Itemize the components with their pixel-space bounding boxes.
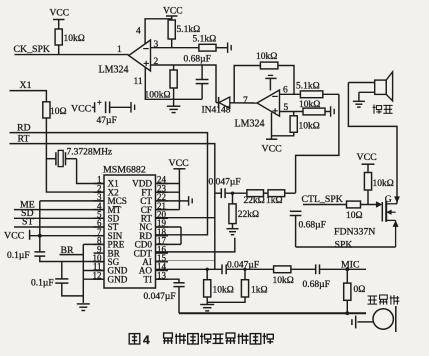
wire SG line (pin10) (40, 261, 104, 263)
svg-text:CTL_SPK: CTL_SPK (302, 194, 343, 205)
resistor R11 22k&#937; (247, 190, 264, 197)
svg-text:VCC: VCC (163, 7, 183, 17)
terminator at microphone (355, 316, 357, 329)
wire AO net (pin14) (156, 268, 222, 270)
svg-text:AI: AI (142, 257, 152, 267)
capacitor C2 0.68&#181;F (series) (290, 210, 302, 212)
svg-text:15: 15 (157, 253, 167, 263)
wire X1 rail down to pin2 (46, 118, 104, 192)
resistor R4 100k&#937; (173, 65, 175, 70)
transistor Q1 FDN337N (MOSFET) (381, 202, 383, 222)
wire VDD/FT/CT/CF to VCC rail (156, 183, 180, 185)
ground below R4 (173, 99, 175, 106)
IC U2 MSM6882 (104, 175, 156, 288)
svg-text:1kΩ: 1kΩ (251, 286, 268, 296)
junction dot divider (231, 192, 234, 195)
pin 24 (VDD) (156, 183, 169, 185)
svg-text:FDN337N: FDN337N (334, 227, 375, 238)
wire feedback loop U1B (234, 66, 260, 103)
svg-text:SPK: SPK (335, 240, 353, 251)
junction dot VCC / MCS rail (38, 234, 42, 238)
pin 20 (RT) (156, 217, 169, 219)
speaker LS1 (375, 80, 387, 94)
resistor R15 1k&#937; (244, 269, 246, 279)
svg-text:4: 4 (136, 27, 141, 37)
svg-text:20: 20 (157, 210, 167, 220)
svg-text:5.1kΩ: 5.1kΩ (177, 25, 201, 35)
svg-text:22kΩ: 22kΩ (244, 196, 265, 206)
svg-text:10kΩ: 10kΩ (299, 122, 320, 132)
svg-text:FT: FT (141, 187, 152, 197)
power VCC (op-amp U1B) (271, 113, 273, 140)
terminator on CT row (179, 200, 188, 202)
pin 18 (RD) (156, 235, 169, 237)
wire CTL_SPK to gate resistor (303, 204, 347, 206)
pin 9 (BR) (94, 252, 105, 254)
wire RD rail to pin18 (10, 133, 208, 235)
wire pin20 to RT rail (156, 217, 215, 219)
resistor R2 5.1k&#937; (168, 20, 175, 39)
svg-text:0.1µF: 0.1µF (7, 251, 30, 261)
ground rail (bottom) (179, 312, 366, 314)
capacitor C9 0.1&#181;F (61, 262, 63, 279)
wire BR rail (pins 8,11,12) (82, 244, 84, 303)
svg-text:5.1kΩ: 5.1kΩ (193, 35, 217, 45)
wire source return (box bottom) (296, 246, 396, 248)
caption: figure 4 modem circuit (129, 334, 140, 344)
pin 19 (NC) (156, 226, 169, 228)
svg-text:TI: TI (143, 274, 152, 284)
pin 13 (TI) (156, 278, 169, 280)
resistor R10 10&#937; (347, 201, 361, 208)
svg-text:G: G (385, 195, 392, 205)
svg-text:MSM6882: MSM6882 (103, 165, 146, 176)
pin 22 (CT) (156, 200, 169, 202)
svg-text:X1: X1 (20, 80, 32, 91)
svg-text:AO: AO (139, 266, 153, 276)
svg-text:VCC: VCC (71, 104, 91, 115)
svg-text:10Ω: 10Ω (346, 211, 363, 221)
svg-text:18: 18 (157, 227, 167, 237)
capacitor C10 0.047&#181;F (TI pin13) (156, 279, 180, 283)
pin 23 (FT) (156, 191, 169, 193)
wire pin6 net (280, 93, 301, 95)
pin 8 (PRE) (94, 243, 105, 245)
wire pin4 to VCC rail (145, 19, 172, 45)
pin 2 (X2) (94, 191, 105, 193)
svg-text:1: 1 (117, 45, 122, 55)
ground below R13 (227, 228, 239, 230)
wire pin3 net (151, 47, 199, 49)
svg-text:VCC: VCC (169, 158, 189, 169)
diode D1 1N4148 (216, 102, 219, 104)
label speaker (CJK) (373, 105, 382, 114)
pin 15 (AI) (156, 261, 169, 263)
svg-text:LM324: LM324 (99, 65, 129, 76)
crystal Y1 7.3728MHz (46, 158, 56, 160)
svg-text:NC: NC (139, 222, 152, 232)
svg-text:10kΩ: 10kΩ (273, 276, 294, 286)
svg-text:RT: RT (141, 214, 153, 224)
resistor R3 5.1k&#937; (horizontal) (199, 44, 216, 51)
svg-text:GND: GND (108, 274, 128, 284)
ground below R16 (200, 304, 214, 306)
wire BR (60, 254, 84, 256)
pin 6 (ST) (94, 226, 105, 228)
svg-text:ST: ST (22, 216, 33, 227)
svg-text:CD0: CD0 (135, 240, 153, 250)
svg-text:CT: CT (140, 196, 152, 206)
svg-text:RD: RD (17, 123, 31, 134)
wire RT rail down to AO net (10, 144, 215, 270)
capacitor C3 0.047&#181;F (215, 192, 222, 194)
svg-text:IN4148: IN4148 (202, 106, 231, 116)
pin 14 (AO) (156, 270, 169, 272)
ground (speaker) (358, 92, 360, 101)
svg-text:4: 4 (143, 333, 150, 347)
wire CK_SPK to op-amp output (15, 54, 129, 56)
svg-text:14: 14 (157, 262, 167, 272)
resistor R9 10k&#937; (364, 173, 371, 191)
op-amp U1B LM324 (pins 5,6,7) (257, 90, 280, 116)
wire SD to pin5 (14, 217, 104, 219)
svg-text:0.047µF: 0.047µF (209, 178, 241, 188)
wire pin2 net (151, 65, 217, 103)
ground above U1B (268, 74, 273, 76)
wire to gate with arrow (361, 204, 378, 206)
resistor R12 1k&#937; (268, 190, 285, 197)
resistor R18 0&#937; (346, 269, 348, 283)
svg-text:10kΩ: 10kΩ (256, 52, 277, 62)
pin 11 (GND) (94, 270, 105, 272)
svg-text:VCC: VCC (50, 9, 70, 19)
svg-text:VDD: VDD (132, 179, 152, 189)
wire speaker to drain rail (348, 83, 397, 204)
wire X1 (10, 91, 47, 102)
svg-text:+: + (97, 97, 102, 107)
wire crystal to pin1 (77, 159, 104, 184)
resistor R1 10k&#937; (55, 29, 62, 45)
svg-text:10kΩ: 10kΩ (213, 286, 234, 296)
svg-text:CF: CF (141, 205, 152, 215)
svg-text:10kΩ: 10kΩ (373, 179, 394, 189)
wire pin6 net rail to CTL chain (296, 94, 339, 193)
svg-text:5.1kΩ: 5.1kΩ (296, 82, 320, 92)
resistor R16 10k&#937; (to ground) (206, 269, 208, 279)
capacitor C8 0.1&#181;F (34, 251, 45, 253)
wire ST to pin6 (14, 226, 104, 228)
svg-text:16: 16 (157, 244, 167, 254)
svg-text:10kΩ: 10kΩ (64, 34, 85, 44)
svg-text:47µF: 47µF (97, 116, 117, 126)
wire R15 bottom to ground (207, 297, 245, 302)
wire pin5 net (280, 111, 304, 113)
wire pin3 rail (MCS) (40, 200, 104, 202)
capacitor C6 0.68&#181;F (315, 264, 317, 274)
svg-text:VCC: VCC (357, 152, 377, 163)
resistor R6 5.1k&#937; (300, 91, 322, 98)
svg-text:VCC: VCC (4, 230, 24, 241)
resistor R7 10k&#937; (303, 108, 325, 115)
svg-text:VCC: VCC (262, 144, 282, 155)
svg-text:0.047µF: 0.047µF (144, 292, 176, 302)
svg-text:RD: RD (139, 231, 152, 241)
microphone MK1 (373, 309, 393, 329)
pin 16 (CDT) (156, 252, 169, 254)
op-amp U1A LM324 (pins 1,2,3) (129, 40, 151, 71)
svg-text:MIC: MIC (341, 260, 360, 271)
resistor R5 10k&#937; (feedback) (260, 62, 278, 69)
svg-text:10Ω: 10Ω (50, 107, 67, 117)
wire op-amp U1A bottom rail (pin 11) (145, 68, 202, 100)
svg-text:0.68µF: 0.68µF (184, 55, 211, 65)
wire pin15 to RT rail (faint) (156, 259, 215, 261)
svg-text:0.68µF: 0.68µF (299, 221, 326, 231)
pin 5 (SD) (94, 217, 105, 219)
svg-text:CDT: CDT (134, 248, 153, 258)
resistor R17 10&#937; (43, 102, 50, 118)
wire ME to pin4 (14, 209, 104, 211)
svg-text:0.68µF: 0.68µF (303, 280, 330, 290)
svg-text:7: 7 (243, 96, 248, 106)
ground (logic) (77, 303, 90, 305)
junction dot ground rail (345, 311, 349, 315)
junction dot R16 top (206, 268, 209, 271)
svg-text:0.1µF: 0.1µF (31, 279, 54, 289)
pin 1 (X1) (94, 183, 105, 185)
svg-text:22kΩ: 22kΩ (238, 210, 259, 220)
junction dot MIC (345, 267, 349, 271)
pin 12 (GND) (94, 278, 105, 280)
resistor R13 22k&#937; (to ground) (232, 193, 234, 204)
pin 17 (CD0) (156, 243, 169, 245)
terminator after R3 (227, 42, 229, 53)
svg-text:0Ω: 0Ω (354, 285, 366, 295)
capacitor C5 0.047&#181;F (221, 264, 223, 274)
capacitor C1 0.68&#181;F (201, 65, 203, 80)
resistor R14 10k&#937; (horizontal) (274, 266, 291, 273)
svg-text:10kΩ: 10kΩ (299, 100, 320, 110)
pin 7 (SIN) (94, 235, 105, 237)
svg-text:11: 11 (134, 77, 143, 87)
wire pin16 to ground net (156, 238, 235, 252)
svg-text:1kΩ: 1kΩ (266, 196, 283, 206)
svg-text:LM324: LM324 (235, 119, 265, 130)
pin 4 (MT) (94, 209, 105, 211)
pin 3 (MCS) (94, 200, 105, 202)
pin 10 (SG) (94, 261, 105, 263)
label microphone (CJK) (368, 296, 378, 304)
wire pin17 / pin19 tie (156, 243, 182, 245)
svg-text:7.3728MHz: 7.3728MHz (67, 148, 113, 158)
terminator after R7 (330, 106, 332, 117)
junction dot R15 top (243, 268, 246, 271)
svg-text:3: 3 (154, 40, 159, 50)
svg-text:CK_SPK: CK_SPK (14, 44, 50, 55)
pin 21 (CF) (156, 209, 169, 211)
resistor R8 10k&#937; (pin5 to VCC) (293, 112, 295, 116)
